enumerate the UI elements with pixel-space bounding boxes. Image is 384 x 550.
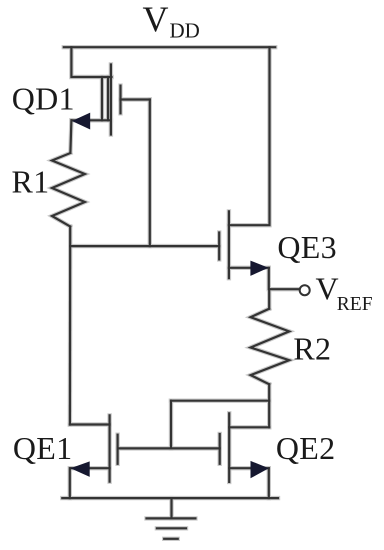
wire feedback drop to gate row: [170, 401, 172, 449]
transistor QD1 source arrow: [72, 113, 90, 130]
transistor QE1 drain wire: [70, 423, 110, 425]
transistor QE3 source wire: [229, 267, 269, 269]
wire VREF node down to R2: [268, 289, 270, 309]
svg-text:R2: R2: [293, 331, 331, 367]
transistor QD1 source wire: [72, 119, 111, 121]
svg-text:QE1: QE1: [13, 430, 73, 466]
ground bar 3: [164, 538, 178, 540]
wire right VDD drop to QE3 drain: [229, 47, 270, 225]
transistor QE1 source wire: [71, 467, 110, 469]
ground bar 2: [157, 527, 186, 529]
wire R2 bottom to QE2 drain: [268, 384, 270, 427]
transistor QE2 gate bar: [219, 434, 221, 464]
node VREF terminal circle: [300, 285, 310, 295]
wire left VDD drop to QD1 drain: [71, 47, 111, 77]
transistor QD1 depletion bar b: [107, 77, 109, 120]
transistor QE2 source wire: [229, 467, 269, 469]
wire bottom gate row QE1-QE2: [118, 447, 220, 449]
svg-text:QE2: QE2: [276, 430, 336, 466]
svg-text:DD: DD: [170, 18, 200, 42]
ground stem: [170, 498, 172, 518]
wire QD1 gate drop to gate row: [149, 100, 151, 247]
wire gate row to QE3: [70, 245, 219, 247]
transistor QE3 gate bar: [218, 233, 220, 260]
svg-text:V: V: [143, 0, 169, 39]
svg-text:QD1: QD1: [12, 80, 75, 116]
resistor R1 zigzag: [52, 153, 85, 227]
wire feedback tee horizontal: [171, 400, 269, 402]
wire QE2 source corner to ground rail: [268, 468, 270, 498]
resistor R2 zigzag: [251, 309, 290, 385]
svg-text:REF: REF: [337, 294, 373, 315]
wire QE1 source corner to ground rail: [69, 468, 72, 498]
wire VDD top rail: [64, 46, 275, 48]
transistor QE3 channel: [228, 211, 230, 278]
transistor QD1 gate bar: [119, 86, 121, 114]
svg-text:V: V: [316, 271, 339, 307]
transistor QE1 gate bar: [116, 435, 118, 464]
transistor QE2 drain wire: [229, 426, 269, 428]
transistor QE2 channel: [228, 413, 230, 482]
transistor QD1 channel: [110, 65, 112, 135]
transistor QE2 source arrow: [251, 461, 269, 478]
wire QD1 source down to R1: [70, 120, 71, 152]
svg-text:R1: R1: [12, 164, 50, 200]
svg-text:QE3: QE3: [277, 229, 337, 265]
transistor QE1 channel: [108, 415, 110, 481]
wire QD1 gate lead: [121, 98, 150, 100]
wire ground bottom rail: [62, 497, 278, 499]
wire QE3 source corner to VREF node: [269, 268, 300, 289]
soft halo underlay for scan blur: [52, 47, 310, 539]
ground bar 1: [147, 517, 196, 519]
transistor QD1 depletion bar a: [101, 77, 103, 120]
transistor QE1 source arrow: [71, 461, 90, 477]
transistor QE3 source arrow: [250, 261, 268, 276]
wire left rail R1 bottom to QE1 drain: [69, 227, 71, 425]
